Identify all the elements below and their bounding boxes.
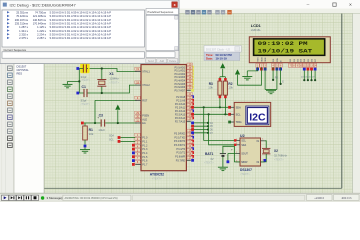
svg-text:X2: X2 (274, 149, 278, 153)
svg-text:<TEXT>: <TEXT> (81, 102, 91, 106)
svg-text:-900.0 th: -900.0 th (341, 196, 352, 200)
chip U2 DS1307 (234, 134, 265, 176)
U1 right pins P2 (175, 93, 194, 124)
resistor R3 (208, 77, 222, 108)
svg-text:XTAL2: XTAL2 (142, 84, 150, 87)
svg-text:S D0 A 00 A S D1 A 02 A 19 A: S D0 A 00 A S D1 A 02 A 19 A 02 A 19 A 1… (50, 33, 112, 37)
svg-text:Send: Send (148, 60, 154, 63)
predefined sequences panel (146, 9, 179, 51)
ground (LCD VSS) (242, 77, 252, 80)
main window buttons (307, 2, 353, 8)
capacitor C3 (97, 113, 105, 132)
power arrow (pull-ups VCC) (220, 64, 226, 77)
DS1307 clock popup (204, 46, 241, 61)
svg-text:<TEXT>: <TEXT> (274, 157, 284, 161)
svg-text:10k: 10k (89, 132, 94, 136)
svg-text:X1: X1 (109, 72, 113, 76)
svg-text:Add: Add (160, 60, 165, 63)
top toolbar icons (185, 10, 231, 14)
wire XTAL2 net (C1 right to U1 XTAL2) (90, 85, 137, 93)
LCD1 labels (251, 24, 262, 32)
svg-text:AT89C52: AT89C52 (150, 172, 164, 176)
svg-text:33pf: 33pf (81, 99, 87, 103)
svg-text:U2: U2 (240, 134, 245, 138)
svg-text:P1.4: P1.4 (142, 152, 148, 155)
svg-text:CRYSTAL: CRYSTAL (17, 68, 30, 72)
svg-text:P3.5/T1: P3.5/T1 (176, 152, 185, 155)
svg-text:EA: EA (142, 122, 146, 125)
svg-text:P1.1: P1.1 (142, 140, 148, 143)
wire EA net through C3 (81, 122, 137, 125)
wire SDA drop to U2 (204, 107, 236, 140)
svg-text:1.341 s: 1.341 s (19, 29, 28, 33)
resistor R1 (83, 123, 94, 147)
I2C debugger instrument (228, 102, 271, 126)
svg-text:P1.2: P1.2 (142, 144, 148, 147)
wire LCD D4-D7 stubs (301, 71, 316, 82)
svg-text:VDD: VDD (261, 57, 263, 62)
svg-text:P3.7/RD: P3.7/RD (176, 159, 186, 162)
LCD pin logic squares (256, 68, 316, 71)
wire XTAL1 net (C2 right to U1 XTAL1) (88, 69, 137, 72)
ground (LCD VEE/RW) (266, 90, 276, 93)
svg-text:32.768kHz: 32.768kHz (274, 154, 288, 158)
svg-text:S D0 A 00 A S D1 A 01 A 19 A: S D0 A 00 A S D1 A 01 A 19 A 02 A 19 A 1… (50, 22, 112, 26)
svg-text:2.234 s: 2.234 s (37, 33, 46, 37)
LCD LM016L body and screen (249, 37, 330, 63)
U1 right pins P3 (174, 129, 194, 162)
svg-text:P3.6/WR: P3.6/WR (175, 156, 185, 159)
svg-text:P3.0/RXD: P3.0/RXD (174, 132, 185, 135)
svg-text:P2.7/A15: P2.7/A15 (175, 120, 186, 123)
svg-text:<TEXT>: <TEXT> (204, 161, 214, 165)
svg-text:12MHz: 12MHz (109, 77, 119, 81)
svg-text:3V: 3V (210, 157, 214, 161)
crystal X2 32.768kHz (261, 141, 288, 162)
svg-text:SDA: SDA (241, 144, 246, 147)
svg-text:RES: RES (17, 71, 23, 75)
svg-text:70.423ms: 70.423ms (16, 14, 28, 18)
U1 right pins P0 (floating yellow) (174, 63, 194, 92)
svg-text:P3.1/TXD: P3.1/TXD (174, 136, 185, 139)
wire LCD E stub (280, 67, 285, 85)
svg-text:19-10-19: 19-10-19 (216, 57, 228, 61)
svg-text:C1: C1 (82, 85, 86, 89)
wire ground rail left of caps (68, 69, 81, 94)
ground (battery) (218, 167, 228, 170)
ground (R1) (80, 147, 90, 153)
wire SDA net (P2.3 to I2C debugger) (191, 106, 231, 109)
svg-text:2.302 s: 2.302 s (19, 33, 28, 37)
svg-text:ALE: ALE (142, 118, 147, 121)
wire RST net (94, 100, 137, 124)
svg-text:S D0 A 00 A S D1 A 02 A 19 A: S D0 A 00 A S D1 A 02 A 19 A 02 A 19 A 1… (50, 29, 112, 33)
ground (crystal caps) (63, 81, 73, 87)
svg-text:S D0 A 00 A S D1 A 59 A 19 A: S D0 A 00 A S D1 A 59 A 19 A 02 A 19 A 1… (50, 14, 112, 18)
svg-text:S D0 A 00 A S D1 A 00 A 19 A: S D0 A 00 A S D1 A 00 A 19 A 02 A 19 A 1… (50, 18, 112, 22)
svg-text:+: + (97, 116, 99, 120)
I2C debug list rows (2, 10, 145, 47)
svg-text:RS: RS (275, 76, 279, 79)
svg-text:P3.3/INT1: P3.3/INT1 (174, 144, 186, 147)
svg-text:TRIG: TRIG (236, 121, 242, 124)
svg-text:2.375 s: 2.375 s (19, 36, 28, 40)
I2C debug window (0, 0, 179, 64)
svg-text:Date:: Date: (206, 57, 213, 61)
bottom status bar (0, 193, 360, 202)
P1.2-P1.7 logic squares (132, 144, 135, 166)
right gutter (353, 14, 360, 194)
svg-text:–: – (307, 3, 310, 8)
svg-text:VSS: VSS (258, 57, 260, 62)
svg-text:121.026ms: 121.026ms (33, 14, 47, 18)
svg-text:XTAL1: XTAL1 (142, 71, 150, 74)
svg-text:<TEXT>: <TEXT> (240, 172, 250, 176)
svg-text:<TEXT>: <TEXT> (81, 78, 91, 82)
svg-text:Predefined Sequences: Predefined Sequences (148, 10, 174, 14)
power arrow (EA/VCC) (116, 105, 120, 123)
svg-text:170.640ms: 170.640ms (33, 22, 47, 26)
left vertical toolbar (0, 64, 14, 194)
svg-text:1.229 s: 1.229 s (37, 29, 46, 33)
wire LCD RS stub (272, 67, 279, 81)
svg-text:19/10/19 SAT: 19/10/19 SAT (258, 48, 313, 55)
LCD pin labels and pin number boxes (256, 57, 317, 68)
power arrow (LCD VDD) (235, 70, 239, 74)
chip U1 AT89C52 (140, 61, 187, 181)
svg-text:10uF: 10uF (98, 128, 105, 132)
svg-text:SCL: SCL (241, 141, 246, 143)
object selector panel (14, 64, 44, 194)
svg-text:VEE: VEE (265, 57, 267, 62)
svg-text:DS1307: DS1307 (17, 64, 27, 68)
schematic grid area (44, 14, 353, 194)
svg-text:<TEXT>: <TEXT> (109, 80, 119, 84)
wire SOUT stub (227, 154, 236, 164)
svg-text:SCL: SCL (109, 139, 114, 142)
U1 left pins with numbers (135, 67, 151, 166)
svg-text:235.310ms: 235.310ms (15, 22, 29, 26)
svg-text:P3.4/T0: P3.4/T0 (176, 148, 185, 151)
svg-text:RST: RST (142, 100, 147, 103)
svg-text:<TEXT>: <TEXT> (152, 176, 162, 180)
wire SCL drop to U2 (209, 114, 236, 145)
svg-text:S D0 A 00 A S D1 A 01 A 19 A: S D0 A 00 A S D1 A 01 A 19 A 02 A 19 A 1… (50, 25, 112, 29)
svg-text:P1.6: P1.6 (142, 160, 148, 163)
svg-text:S D0 A 00 A S D1 A 03 A 19 A: S D0 A 00 A S D1 A 03 A 19 A 02 A 19 A 1… (50, 36, 112, 40)
svg-text:Current Sequence: Current Sequence (4, 48, 27, 52)
svg-text:1.287 s: 1.287 s (19, 25, 28, 29)
svg-text:BAT1: BAT1 (205, 152, 214, 156)
svg-text:P1.3: P1.3 (142, 148, 148, 151)
svg-text:C3: C3 (99, 113, 103, 117)
svg-text:25.351ms: 25.351ms (16, 11, 28, 15)
svg-text:S D0 A 00 A S D1 A 59 A 19 A: S D0 A 00 A S D1 A 59 A 19 A 02 A 19 A 1… (50, 11, 112, 15)
svg-text:33pf: 33pf (81, 75, 87, 79)
svg-text:P1.5: P1.5 (142, 156, 148, 159)
svg-text:x: x (174, 3, 176, 7)
resistor R2 (223, 77, 233, 115)
svg-text:PSEN: PSEN (142, 115, 149, 118)
svg-text:P0.7/AD7: P0.7/AD7 (174, 89, 185, 92)
svg-text:10k: 10k (228, 86, 233, 90)
capacitor C2 (selected, yellow) (76, 62, 90, 82)
wire net D4-D7 stubs from U1 (191, 122, 214, 135)
wire LCD VEE/RW to ground (265, 67, 277, 90)
svg-text:+2400.0: +2400.0 (314, 196, 324, 200)
wires P1.0/P1.1 stubs with labels (109, 135, 135, 143)
sheet border (44, 14, 342, 189)
wire LCD VSS to ground (247, 67, 257, 76)
svg-text:3 Message(s): 3 Message(s) (47, 196, 65, 200)
svg-text:SDA: SDA (236, 107, 241, 110)
svg-text:I2C: I2C (249, 112, 266, 124)
svg-text:09:19:02 PM: 09:19:02 PM (258, 40, 309, 47)
svg-text:74.750us: 74.750us (35, 11, 47, 15)
svg-text:RS: RS (273, 58, 275, 62)
svg-text:SCL: SCL (236, 114, 241, 117)
svg-text:P1.7: P1.7 (142, 164, 148, 167)
wire SCL net (P2.5 to I2C debugger) (191, 113, 231, 116)
svg-text:P1.0: P1.0 (142, 137, 148, 140)
svg-text:2.287 s: 2.287 s (37, 36, 46, 40)
svg-text:Delete: Delete (169, 60, 177, 63)
svg-text:LM016L: LM016L (251, 28, 262, 32)
svg-text:MBAT: MBAT (241, 161, 248, 164)
svg-text:DS1307: DS1307 (240, 168, 252, 172)
current sequence area (2, 48, 178, 63)
svg-text:+: + (231, 148, 233, 152)
svg-text:SDA: SDA (109, 135, 114, 138)
svg-text:ANIMATING: 00:00:02.050000 (CP: ANIMATING: 00:00:02.050000 (CPU load 2%) (65, 196, 118, 200)
svg-text:SOUT: SOUT (241, 154, 248, 156)
battery BAT1 (204, 146, 240, 167)
svg-text:140.847ms: 140.847ms (33, 18, 47, 22)
svg-text:1.125 s: 1.125 s (37, 25, 46, 29)
svg-text:DS1307 Clock - U2: DS1307 Clock - U2 (206, 47, 230, 51)
svg-text:✕: ✕ (349, 2, 353, 7)
capacitor C1 (76, 85, 90, 106)
svg-text:I2C Debug - $I2C:DEBUGGER#0047: I2C Debug - $I2C:DEBUGGER#0047 (10, 3, 77, 8)
svg-text:10k: 10k (208, 86, 213, 90)
crystal X1 (97, 67, 119, 94)
svg-text:P3.2/INT0: P3.2/INT0 (174, 140, 186, 143)
wire LCD VDD to power (238, 67, 262, 85)
svg-text:230.167ms: 230.167ms (15, 18, 29, 22)
